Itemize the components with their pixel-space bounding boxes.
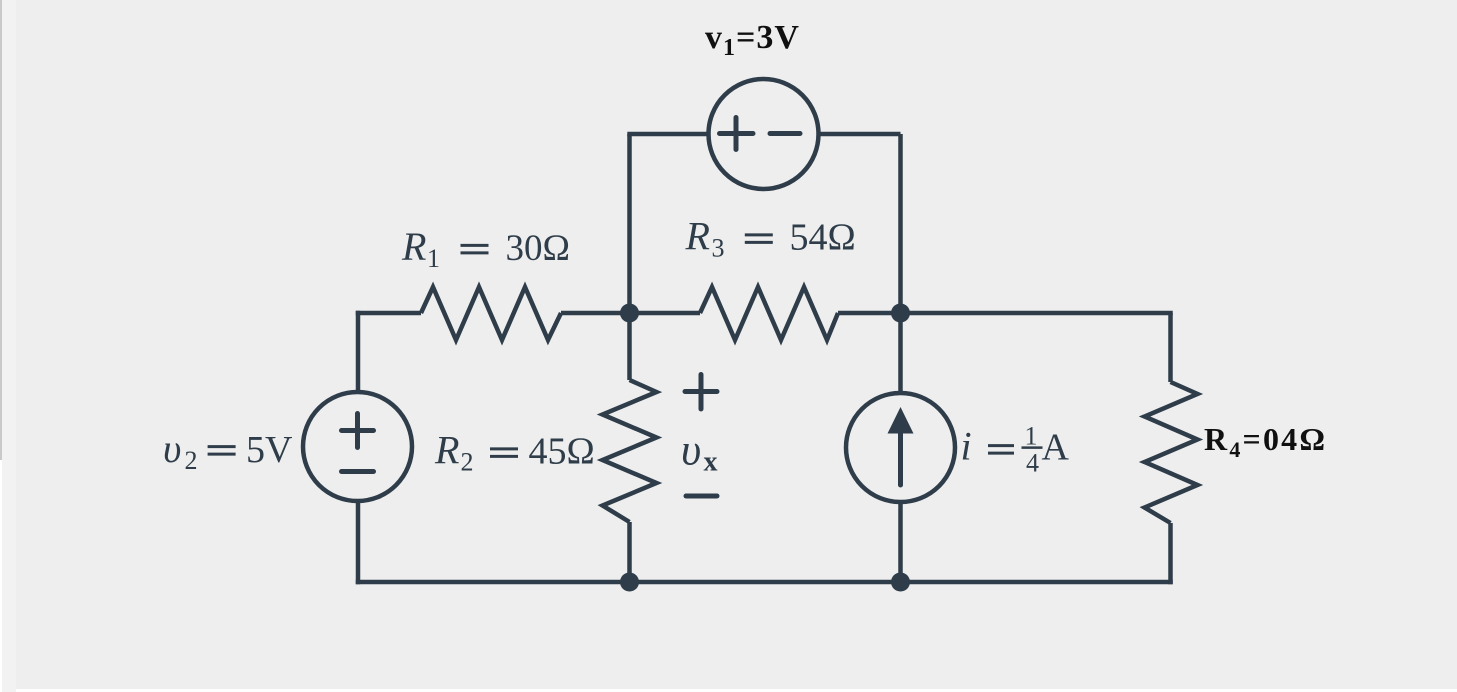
svg-text:3: 3 [712, 234, 725, 263]
wire: R1 to node A and node A to R3 [561, 311, 700, 316]
node C dot (bottom left) [620, 573, 639, 592]
wire: left branch vertical top (corner to v2 top) [356, 311, 361, 392]
svg-text:R: R [401, 224, 426, 269]
svg-text:4: 4 [1026, 449, 1039, 478]
v2 minus sign [342, 469, 374, 474]
svg-text:1: 1 [1025, 422, 1038, 451]
wire: current source lower stub [898, 502, 903, 582]
node A dot [620, 304, 639, 323]
voltage source v1 circle [709, 79, 819, 189]
svg-text:2: 2 [461, 448, 474, 477]
wire: current source upper stub [898, 313, 903, 393]
svg-text:30Ω: 30Ω [506, 228, 571, 269]
svg-text:5V: 5V [246, 429, 293, 471]
current source arrow head [888, 407, 914, 434]
wire: mid horizontal left segment (x_left to R1) [356, 311, 421, 316]
svg-text:45Ω: 45Ω [529, 431, 595, 473]
svg-text:A: A [1042, 427, 1070, 469]
resistor R4 zigzag [1145, 382, 1198, 523]
svg-text:x: x [704, 447, 718, 478]
label i = 1/4 A [961, 422, 1070, 478]
wire: top loop left horizontal (to v1) [627, 132, 708, 137]
svg-text:υ: υ [163, 426, 181, 471]
wire: top loop right horizontal (v1 to right) [819, 132, 901, 137]
wire: left branch vertical bottom (v2 bottom to bottom rail) [356, 501, 361, 584]
label vx [681, 426, 718, 478]
current source I circle [846, 393, 955, 502]
voltage source v2 circle [303, 392, 412, 501]
wire: top loop left vertical (node A up) [627, 134, 632, 313]
resistor R2 zigzag [603, 380, 657, 522]
svg-text:υ: υ [681, 426, 701, 475]
current source arrow shaft [898, 430, 903, 485]
resistor R3 zigzag [700, 287, 838, 340]
svg-text:R: R [685, 214, 710, 259]
label R2 = 45Omega [434, 428, 595, 477]
svg-text:54Ω: 54Ω [790, 217, 856, 259]
node D dot (bottom right) [891, 573, 910, 592]
label R1 = 30Omega [401, 224, 570, 273]
label v2 = 5V [163, 426, 293, 475]
vx minus sign [686, 494, 717, 499]
svg-text:v1=3V: v1=3V [705, 19, 800, 61]
label R3 = 54Omega [685, 214, 856, 263]
v1 plus sign [720, 118, 754, 150]
svg-text:i: i [961, 424, 972, 469]
v2 plus sign [342, 414, 374, 448]
svg-text:2: 2 [185, 446, 198, 475]
wire: bottom rail [356, 580, 1173, 585]
svg-text:1: 1 [427, 244, 440, 273]
resistor R1 zigzag [421, 287, 561, 340]
node B dot [891, 304, 910, 323]
wire: R2 branch upper stub [627, 313, 632, 380]
wire: top loop right vertical (down to node B) [898, 134, 903, 313]
vx plus sign [685, 375, 717, 410]
svg-text:R4=04Ω: R4=04Ω [1204, 421, 1327, 462]
svg-text:R: R [434, 428, 459, 473]
v1 minus sign [770, 131, 800, 136]
wire: R4 branch upper stub [1168, 313, 1173, 382]
wire: R2 branch lower stub [627, 522, 632, 582]
wire: R4 branch lower stub [1168, 523, 1173, 584]
wire: R3 to node B to right branch [838, 311, 1173, 316]
